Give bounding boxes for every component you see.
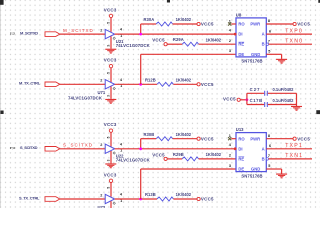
resistor R13B	[157, 197, 173, 201]
svg-text:DI: DI	[238, 146, 242, 151]
svg-text:R13B: R13B	[145, 192, 156, 197]
wire resistor R29B to RE pin 2	[199, 158, 236, 160]
sheet marker right middle	[316, 110, 320, 114]
ground symbol at cap rail	[291, 106, 302, 111]
svg-text:TXN1: TXN1	[285, 153, 303, 159]
wire resistor R12B to VCC5	[173, 83, 197, 85]
wire resistor R29A to RE pin 2	[199, 43, 236, 45]
off-page port symbol S_TX_CTRL	[45, 197, 60, 202]
buffer U22 74LVC1G07 triangle	[105, 144, 114, 153]
svg-text:1*,2: 1*,2	[10, 31, 15, 35]
wire U8 pin 7 B net TXN0	[269, 43, 312, 45]
wire junction to resistor R30A	[141, 23, 157, 25]
svg-text:2: 2	[229, 154, 231, 158]
wire U8 pin 8 PWR to VCC5	[266, 23, 293, 25]
IC U8 SN75176B body	[236, 18, 266, 57]
svg-text:VCC3: VCC3	[104, 7, 117, 12]
junction on cap left rail	[246, 98, 249, 101]
wire VCC5 to resistor R29A	[167, 43, 182, 45]
svg-text:VCC5: VCC5	[201, 82, 214, 87]
power symbol VCC5 at U8 PWR	[293, 22, 296, 25]
resistor R30A	[156, 22, 172, 26]
svg-text:M_SCITXD: M_SCITXD	[20, 30, 38, 35]
svg-text:VCC5: VCC5	[297, 22, 310, 27]
no-connect X on U13 pin 1 RO	[228, 137, 231, 140]
svg-text:U8: U8	[236, 12, 242, 17]
svg-text:VCC5: VCC5	[201, 136, 214, 141]
ground symbol at U8 pin 5	[276, 59, 287, 64]
svg-text:R30B: R30B	[144, 132, 155, 137]
inversion bubble on U8 pin 7 B	[266, 43, 268, 45]
svg-text:3: 3	[107, 159, 111, 161]
ground symbol below U72	[105, 214, 116, 219]
svg-text:RE: RE	[238, 156, 244, 161]
svg-text:R30A: R30A	[144, 17, 155, 22]
svg-text:6: 6	[269, 144, 271, 148]
svg-text:S_SCITXD: S_SCITXD	[63, 143, 93, 148]
svg-text:M_SCITXD: M_SCITXD	[63, 28, 94, 33]
svg-text:VCC5: VCC5	[201, 197, 214, 202]
sheet marker top-right corner	[318, 0, 320, 3]
svg-text:DI: DI	[238, 32, 242, 37]
wire VCC3 to U72 pin 5	[110, 183, 112, 197]
open-drain indicator of U71	[113, 87, 115, 89]
power symbol VCC5 at R12B	[197, 83, 200, 86]
capacitor C27	[265, 91, 268, 96]
svg-text:VCC5: VCC5	[297, 136, 310, 141]
svg-text:DE: DE	[238, 52, 244, 57]
buffer U71 74LVC1G07 triangle	[105, 80, 114, 89]
svg-text:PWR: PWR	[250, 22, 260, 27]
off-page port symbol S_SCITXD	[45, 147, 60, 152]
svg-text:C27: C27	[250, 87, 261, 92]
svg-text:VCC3: VCC3	[104, 58, 117, 63]
wire VCC5 to resistor R29B	[167, 158, 182, 160]
svg-text:3: 3	[107, 95, 111, 97]
svg-text:1K/0402: 1K/0402	[206, 38, 222, 43]
svg-text:2: 2	[100, 143, 102, 147]
svg-text:5: 5	[107, 136, 111, 138]
solder dot at U8 DI pin	[234, 33, 237, 36]
wire U13 pin 6 A net TXP1	[266, 148, 312, 150]
svg-text:2: 2	[100, 79, 102, 83]
open-drain indicator of U72	[113, 202, 115, 204]
sheet marker left middle	[0, 111, 3, 115]
wire capacitor C27 to right rail	[268, 92, 297, 94]
wire U8 pin 5 GND	[266, 53, 281, 55]
off-page port symbol M_TX_CTRL	[45, 82, 60, 87]
wire U72 pin 3 to ground	[110, 201, 112, 213]
wire buffer U22 output to DI	[115, 148, 236, 150]
wire U13 pin 7 B net TXN1	[269, 158, 312, 160]
svg-text:TXP0: TXP0	[285, 28, 303, 34]
wire U22 pin 3 to ground	[110, 151, 112, 163]
wire VCC3 to U22 pin 5	[110, 132, 112, 146]
wire U71 pin 3 to ground	[110, 87, 112, 99]
svg-text:M_TX_CTRL: M_TX_CTRL	[19, 81, 41, 86]
svg-text:DE: DE	[238, 167, 244, 172]
resistor R29A	[182, 42, 198, 46]
cap left rail wire	[246, 93, 248, 104]
wire buffer U72 output row	[115, 198, 157, 200]
ground symbol below U22	[105, 163, 116, 168]
wire U13 pin 5 GND	[266, 168, 281, 170]
solder dot at U13 DI pin	[234, 147, 237, 150]
wire R30A branch vertical	[140, 24, 142, 34]
svg-text:0.1uF/0402: 0.1uF/0402	[273, 98, 295, 103]
svg-text:PWR: PWR	[250, 136, 260, 141]
svg-text:8: 8	[268, 19, 270, 23]
svg-text:2: 2	[100, 193, 102, 197]
svg-text:TXP1: TXP1	[285, 143, 303, 149]
ground symbol at U13 pin 5	[276, 174, 287, 179]
svg-text:VCC5: VCC5	[223, 97, 236, 102]
svg-text:1*,3: 1*,3	[10, 146, 15, 150]
svg-text:2: 2	[100, 29, 102, 33]
wire junction to resistor R30B	[141, 138, 157, 140]
wire M_TX_CTRL port to buffer U71 input pin 2	[60, 83, 105, 85]
buffer U72 74LVC1G07 triangle	[105, 194, 114, 203]
svg-text:VCC3: VCC3	[104, 172, 117, 177]
wire resistor R30B to VCC5	[173, 138, 197, 140]
wire M_SCITXD port to buffer U21 input pin 2	[60, 33, 105, 35]
ground symbol below U21	[105, 49, 116, 54]
ground symbol below U71	[105, 99, 116, 104]
open-drain indicator of U22	[113, 152, 115, 154]
svg-text:GND: GND	[251, 52, 260, 57]
svg-text:3: 3	[107, 45, 111, 47]
svg-text:3: 3	[229, 164, 231, 168]
wire stub U13 pin 1	[231, 138, 236, 140]
svg-text:RO: RO	[238, 22, 245, 27]
svg-text:A: A	[262, 146, 265, 151]
svg-text:R12B: R12B	[145, 78, 156, 83]
svg-text:R29B: R29B	[173, 152, 184, 157]
svg-text:8: 8	[268, 134, 270, 138]
svg-text:GND: GND	[251, 167, 260, 172]
buffer U21 74LVC1G07 triangle	[105, 29, 114, 38]
wire VCC5 to cap rail	[240, 99, 247, 101]
svg-text:S_SCITXD: S_SCITXD	[20, 145, 38, 150]
junction on buffer output	[139, 147, 142, 150]
wire capacitor C17B to right rail	[268, 104, 297, 106]
svg-text:5: 5	[268, 49, 270, 53]
svg-text:C17B: C17B	[250, 98, 263, 103]
svg-text:SN75176B: SN75176B	[241, 173, 262, 178]
cap right rail wire to ground	[296, 93, 298, 106]
svg-text:U13: U13	[236, 127, 244, 132]
svg-text:3: 3	[229, 49, 231, 53]
resistor R30B	[156, 137, 172, 141]
junction on buffer output to DE branch	[139, 198, 142, 201]
wire left rail to capacitor C27	[247, 92, 264, 94]
svg-text:1: 1	[229, 19, 231, 23]
svg-text:2: 2	[229, 39, 231, 43]
wire resistor R13B to VCC5	[173, 198, 197, 200]
wire VCC3 to U71 pin 5	[110, 68, 112, 82]
wire U21 pin 3 to ground	[110, 36, 112, 48]
open-drain indicator of U21	[113, 37, 115, 39]
svg-text:VCC3: VCC3	[104, 122, 117, 127]
wire DE branch horizontal to U8 pin 3	[141, 53, 236, 55]
svg-text:74LVC1G07DCK: 74LVC1G07DCK	[116, 158, 151, 163]
svg-text:1K/0402: 1K/0402	[176, 132, 192, 137]
sheet marker top middle	[167, 0, 170, 3]
svg-text:6: 6	[269, 29, 271, 33]
wire DE branch vertical from U71 output	[140, 54, 142, 84]
wire left rail to capacitor C17B	[247, 104, 264, 106]
svg-text:S_TX_CTRL: S_TX_CTRL	[19, 195, 40, 200]
wire buffer U21 output to DI	[115, 33, 236, 35]
wire S_TX_CTRL port to buffer U72 input pin 2	[60, 198, 105, 200]
svg-text:VCC5: VCC5	[152, 38, 165, 43]
svg-text:1K/0402: 1K/0402	[176, 17, 192, 22]
IC U13 SN75176B body	[236, 133, 266, 172]
resistor R29B	[182, 157, 198, 161]
svg-text:RE: RE	[238, 42, 244, 47]
svg-text:R29A: R29A	[173, 37, 184, 42]
power symbol VCC5 at R13B	[197, 197, 200, 200]
power symbol VCC5 at R30B	[197, 137, 200, 140]
svg-text:1K/0402: 1K/0402	[176, 192, 192, 197]
inversion bubble on U13 pin 7 B	[266, 158, 268, 160]
svg-text:RO: RO	[238, 136, 245, 141]
svg-text:VCC5: VCC5	[201, 22, 214, 27]
no-connect X on U8 pin 1 RO	[228, 22, 231, 25]
wire stub U8 pin 1	[231, 23, 236, 25]
svg-text:1: 1	[229, 134, 231, 138]
svg-text:1K/0402: 1K/0402	[176, 77, 192, 82]
svg-text:VCC5: VCC5	[152, 152, 165, 157]
resistor R12B	[157, 82, 173, 86]
power symbol VCC5 at U13 PWR	[293, 137, 296, 140]
svg-text:1K/0402: 1K/0402	[206, 152, 222, 157]
svg-text:U71: U71	[98, 90, 106, 95]
svg-text:7: 7	[268, 154, 270, 158]
off-page port symbol M_SCITXD	[45, 32, 60, 37]
svg-text:5: 5	[107, 22, 111, 24]
wire VCC3 to U21 pin 5	[110, 18, 112, 32]
svg-text:0.1uF/0402: 0.1uF/0402	[273, 87, 295, 92]
sheet marker top-left	[0, 0, 4, 5]
svg-text:5: 5	[268, 164, 270, 168]
svg-text:7: 7	[268, 39, 270, 43]
svg-text:5: 5	[107, 187, 111, 189]
wire DE branch horizontal to U13 pin 3	[141, 168, 236, 170]
power symbol VCC5 at R30A	[197, 22, 200, 25]
capacitor C17B	[265, 102, 268, 107]
junction on buffer output	[139, 33, 142, 36]
svg-text:TXN0: TXN0	[285, 39, 303, 45]
wire R30B branch vertical	[140, 139, 142, 149]
svg-text:74LVC1G07DCK: 74LVC1G07DCK	[68, 96, 103, 101]
svg-text:U72: U72	[98, 205, 106, 208]
wire S_SCITXD port to buffer U22 input pin 2	[60, 148, 105, 150]
svg-text:5: 5	[107, 72, 111, 74]
wire DE branch vertical from U72 output	[140, 169, 142, 199]
svg-text:B: B	[262, 42, 265, 47]
wire U8 pin 6 A net TXP0	[266, 33, 312, 35]
svg-text:B: B	[262, 156, 265, 161]
wire U13 pin 8 PWR to VCC5	[266, 138, 293, 140]
wire buffer U71 output row	[115, 83, 157, 85]
svg-text:SN75176B: SN75176B	[241, 59, 262, 64]
sheet border left edge	[0, 0, 1, 208]
junction on buffer output to DE branch	[139, 83, 142, 86]
svg-text:74LVC1G07DCK: 74LVC1G07DCK	[116, 43, 151, 48]
wire resistor R30A to VCC5	[173, 23, 197, 25]
svg-text:A: A	[262, 32, 265, 37]
